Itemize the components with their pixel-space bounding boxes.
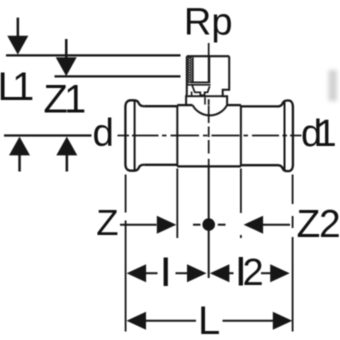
left tube top line	[144, 105, 177, 107]
extension line left (x=125.6)	[125, 175, 127, 213]
Z1 down arrow	[56, 39, 77, 76]
extension line right (x=292.6)	[292, 175, 294, 191]
thread relief upper line	[187, 84, 210, 86]
svg-text:1: 1	[12, 65, 34, 109]
central body top right segment	[227, 104, 241, 106]
l dimension left arrow	[127, 264, 147, 282]
L dimension left arrow	[127, 312, 147, 330]
right press bell outer	[277, 101, 293, 172]
central body top left segment	[177, 104, 192, 106]
extension line stop left (x=177.3)	[176, 169, 178, 239]
Z1 top line	[55, 75, 181, 77]
Z right arrow	[157, 216, 177, 234]
bore wall below relief	[191, 92, 193, 97]
svg-text:1: 1	[316, 113, 337, 155]
end of thread line	[191, 81, 210, 83]
l dimension line left	[145, 272, 158, 274]
l dimension right arrow	[187, 264, 207, 282]
l dimension line right	[176, 272, 188, 274]
left body step	[176, 105, 178, 166]
extension line stop right (x=240.9)	[240, 169, 242, 214]
Z2 left arrow	[244, 216, 264, 234]
node dot segments	[193, 224, 201, 226]
l2 line left stub	[229, 272, 234, 274]
left tube bottom line	[144, 164, 177, 166]
thread relief tongue	[192, 85, 210, 95]
Z2 dimension line	[263, 224, 290, 226]
l2 dimension left arrow	[210, 264, 230, 282]
central body bottom	[177, 165, 241, 167]
l2 line right stub	[261, 272, 271, 274]
centerline vertical above branch	[208, 43, 210, 56]
center extension line below body	[208, 167, 210, 278]
section boundary at center of branch	[208, 56, 210, 82]
vertical centerline inside body	[208, 105, 210, 166]
node dot	[202, 218, 215, 231]
scan smudge right edge	[329, 70, 338, 101]
thread band inner wall	[192, 57, 194, 82]
left press bell outer	[125, 100, 144, 170]
collar top line	[186, 95, 223, 97]
svg-text:Z: Z	[297, 203, 321, 246]
svg-text:Z: Z	[96, 202, 118, 243]
l2 dimension right arrow	[270, 264, 290, 282]
svg-text:L: L	[198, 299, 220, 340]
branch centerline dash below thread	[208, 99, 210, 105]
L dimension line right	[223, 320, 274, 322]
svg-text:2: 2	[319, 203, 340, 246]
right tube top line	[241, 105, 277, 107]
right body step	[240, 105, 242, 166]
svg-text:Rp: Rp	[184, 1, 233, 43]
Z1 up arrow	[56, 137, 77, 172]
Z dimension line	[120, 224, 157, 226]
thread hatch band	[188, 57, 192, 83]
L1 up arrow	[9, 137, 30, 172]
svg-text:2: 2	[243, 252, 264, 294]
branch socket outline	[187, 55, 229, 57]
right tube bottom line	[241, 164, 277, 166]
svg-text:d: d	[93, 112, 114, 155]
L dimension line left	[145, 320, 196, 322]
L dimension right arrow	[273, 312, 293, 330]
saddle arc	[193, 105, 227, 115]
bore edge below collar	[204, 97, 206, 104]
horizontal centerline	[4, 134, 92, 136]
L1 down arrow	[7, 18, 28, 55]
right bell mouth face line	[284, 102, 286, 170]
left bell mouth face line	[134, 102, 136, 170]
L1 top line	[6, 54, 181, 56]
svg-text:1: 1	[64, 78, 86, 122]
svg-text:l: l	[162, 253, 170, 295]
